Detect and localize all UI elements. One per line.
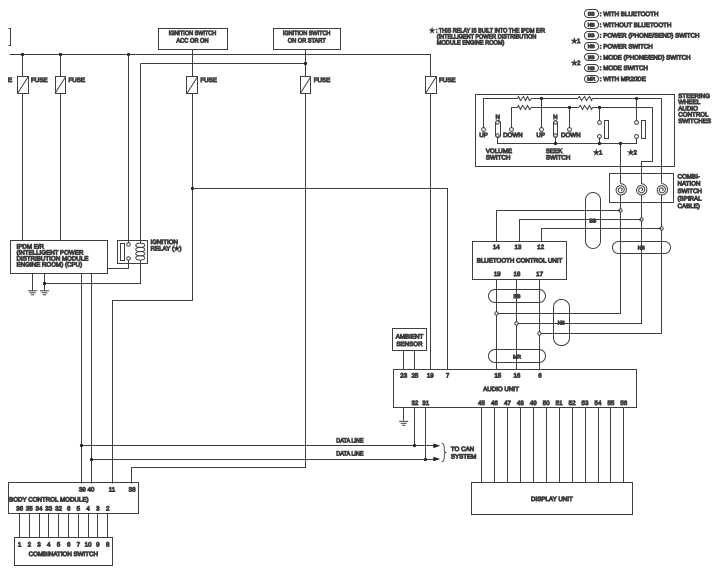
legend row BB MODE (PHONE/END) SWITCH bbox=[585, 54, 691, 62]
node: bus junction to fuse E bbox=[21, 53, 24, 56]
combination switch pin 3 bbox=[37, 541, 41, 548]
audio pin 45 bbox=[478, 400, 485, 407]
switch star1 bbox=[594, 108, 609, 157]
wire: spiral2 down, to audio16 line bbox=[517, 196, 642, 324]
fuse F2 bbox=[55, 77, 85, 94]
fuse F1 (E) bbox=[8, 77, 48, 94]
wire: fuse F1 to IPDM E/R bbox=[22, 94, 24, 241]
legend row NB POWER SWITCH bbox=[585, 43, 653, 51]
combination switch pin 8 bbox=[106, 541, 110, 548]
svg-text:E: E bbox=[8, 77, 12, 84]
wire: BCM 33 to combination switch bbox=[48, 514, 50, 538]
wire: spiral3 down, to audio6 line bbox=[540, 196, 662, 334]
legend row MR WITH MR20DE bbox=[585, 76, 646, 84]
audio pin 7 bbox=[446, 373, 450, 380]
combination switch pin 10 bbox=[85, 541, 92, 548]
wire: spiral3 to bluetooth pin 12 bbox=[542, 229, 662, 242]
wire: ACC switch lead to fuse 3 bbox=[192, 50, 194, 77]
brace: to CAN system bbox=[442, 443, 447, 461]
fuse F5 bbox=[426, 77, 456, 94]
wire: audio 52 to display unit bbox=[572, 408, 574, 483]
node: ON/START lead junction bbox=[304, 62, 307, 65]
wire: common output to spiral cable bbox=[620, 144, 622, 184]
wire: BCM 2 to combination switch bbox=[107, 514, 109, 538]
svg-text:DOWN: DOWN bbox=[503, 132, 523, 139]
audio pin 49 bbox=[530, 400, 537, 407]
svg-text:RELAY (★): RELAY (★) bbox=[151, 245, 182, 252]
wire: audio 47 to display unit bbox=[507, 408, 509, 483]
node: spiral3 option junction bbox=[660, 227, 663, 230]
wire: data line 1 bbox=[82, 445, 434, 447]
svg-text:32: 32 bbox=[411, 400, 418, 407]
arrow: data line 2 to CAN bbox=[433, 457, 440, 462]
node: spiral2 option junction bbox=[640, 218, 643, 221]
svg-text:DATA LINE: DATA LINE bbox=[336, 451, 363, 458]
BCM pin 6 bbox=[67, 506, 71, 513]
combination switch pin 4 bbox=[47, 541, 51, 548]
IPDM E/R box bbox=[11, 241, 108, 274]
BCM pin 3 bbox=[96, 506, 100, 513]
seek switch N contact bbox=[553, 114, 557, 144]
svg-text:COMBI-: COMBI- bbox=[678, 173, 700, 180]
wire: bluetooth 18 to audio 16 bbox=[516, 280, 518, 370]
wire: data line 2 bbox=[92, 459, 434, 461]
node: common output junction bbox=[619, 142, 622, 145]
svg-text:4: 4 bbox=[47, 541, 51, 548]
page continuation bracket top-left bbox=[9, 29, 11, 46]
BCM pin 34 bbox=[36, 506, 43, 513]
svg-text:: MODE (PHONE/END) SWITCH: : MODE (PHONE/END) SWITCH bbox=[600, 54, 691, 61]
svg-text:NB: NB bbox=[588, 22, 596, 28]
node: audio16 option junction bbox=[515, 322, 518, 325]
svg-text:39: 39 bbox=[79, 486, 86, 493]
svg-text:7: 7 bbox=[446, 373, 450, 380]
svg-text:★2: ★2 bbox=[572, 60, 582, 67]
combination switch pin 7 bbox=[77, 541, 81, 548]
wire: audio 50 to display unit bbox=[546, 408, 548, 483]
legend marker *1 bbox=[572, 38, 582, 45]
svg-text:23: 23 bbox=[400, 373, 407, 380]
svg-text:NB: NB bbox=[558, 321, 566, 327]
node: audio6 option junction bbox=[538, 332, 541, 335]
svg-text:MR: MR bbox=[587, 77, 595, 83]
label: to CAN system bbox=[451, 446, 476, 461]
BCM pin 36 bbox=[16, 506, 23, 513]
svg-text:AUDIO UNIT: AUDIO UNIT bbox=[483, 386, 519, 393]
svg-text:2: 2 bbox=[106, 506, 110, 513]
audio pin 46 bbox=[491, 400, 498, 407]
svg-text:DISPLAY UNIT: DISPLAY UNIT bbox=[531, 496, 573, 503]
svg-text:MODULE ENGINE ROOM): MODULE ENGINE ROOM) bbox=[437, 40, 505, 47]
audio pin 51 bbox=[556, 400, 563, 407]
svg-text:: WITH BLUETOOTH: : WITH BLUETOOTH bbox=[600, 11, 659, 18]
svg-text:SWITCHES: SWITCHES bbox=[678, 118, 711, 125]
svg-text:DATA LINE: DATA LINE bbox=[336, 437, 363, 444]
volume switch UP contact bbox=[479, 128, 488, 139]
svg-text:NB: NB bbox=[638, 246, 646, 252]
wire: branch to audio unit pin 7 bbox=[193, 189, 448, 370]
svg-text:ACC OR ON: ACC OR ON bbox=[176, 37, 208, 44]
svg-text:53: 53 bbox=[582, 400, 589, 407]
node: audio15 option junction bbox=[495, 312, 498, 315]
svg-text:6: 6 bbox=[67, 541, 71, 548]
node: fuse F3 branch junction bbox=[191, 187, 194, 190]
svg-text:: POWER SWITCH: : POWER SWITCH bbox=[600, 44, 653, 51]
BCM pin 32 bbox=[55, 506, 62, 513]
wire: fuse F5 to audio unit pin 19 bbox=[430, 94, 432, 370]
connector NB (horizontal, without bluetooth) bbox=[613, 242, 671, 254]
svg-text:TO CAN: TO CAN bbox=[451, 446, 474, 453]
svg-text:6: 6 bbox=[67, 506, 71, 513]
svg-text:SWITCH: SWITCH bbox=[546, 154, 570, 161]
volume switch N contact bbox=[495, 114, 500, 138]
fuse F3 bbox=[187, 77, 217, 94]
svg-text:BB: BB bbox=[588, 33, 595, 39]
spiral cable coil 1 bbox=[616, 184, 626, 195]
wire: audio 31 to data line 2 bbox=[425, 408, 427, 460]
node: star1 common junction bbox=[598, 142, 601, 145]
svg-text:35: 35 bbox=[26, 506, 33, 513]
wire: BCM 32 to combination switch bbox=[58, 514, 60, 538]
body control module box bbox=[9, 483, 139, 514]
connector MR (with MR20DE) bbox=[489, 350, 546, 363]
ground: IPDM 1 bbox=[28, 274, 37, 295]
wire: spiral1 down, to audio15 line bbox=[497, 196, 621, 314]
wire: ambient sensor to audio 25 bbox=[414, 351, 416, 370]
svg-text:: WITHOUT BLUETOOTH: : WITHOUT BLUETOOTH bbox=[600, 22, 672, 29]
audio pin 16 bbox=[513, 373, 520, 380]
connector NB (vertical) bbox=[554, 300, 570, 346]
wire: spiral1 to bluetooth pin 14 bbox=[497, 211, 621, 242]
node: seek up tap bbox=[540, 97, 543, 100]
wire: ON/START branch bus bbox=[141, 63, 306, 65]
svg-text:25: 25 bbox=[411, 373, 418, 380]
svg-text:54: 54 bbox=[595, 400, 602, 407]
BCM pin 4 bbox=[86, 506, 90, 513]
ground: audio unit bbox=[399, 408, 408, 426]
wire: fuse F3 down bbox=[113, 94, 193, 484]
svg-text:1: 1 bbox=[18, 541, 22, 548]
svg-text:52: 52 bbox=[569, 400, 576, 407]
svg-text:7: 7 bbox=[77, 541, 81, 548]
BCM pin 38 bbox=[129, 486, 136, 493]
node: star2 tap bbox=[635, 97, 638, 100]
svg-text:11: 11 bbox=[109, 486, 116, 493]
connector BB (horizontal) bbox=[489, 290, 546, 303]
audio pin 53 bbox=[582, 400, 589, 407]
svg-text:★1: ★1 bbox=[572, 38, 582, 45]
wire: BCM 3 to combination switch bbox=[97, 514, 99, 538]
combination switch pin 1 bbox=[18, 541, 22, 548]
node: star1 tap bbox=[598, 106, 601, 109]
ground: IPDM 2 bbox=[40, 274, 49, 295]
svg-text:FUSE: FUSE bbox=[200, 77, 217, 84]
node: spiral1 option junction bbox=[619, 209, 622, 212]
svg-text:NB: NB bbox=[588, 44, 596, 50]
svg-text:ON OR START: ON OR START bbox=[288, 37, 326, 44]
audio pin 56 bbox=[620, 400, 627, 407]
wire: BCM 5 to combination switch bbox=[78, 514, 80, 538]
wire: branch bus to relay coil bbox=[140, 64, 142, 244]
wire: audio 51 to display unit bbox=[559, 408, 561, 483]
svg-text:NATION: NATION bbox=[678, 181, 701, 188]
svg-text:FUSE: FUSE bbox=[314, 77, 331, 84]
pin 19 bbox=[494, 271, 501, 278]
seek switch UP contact bbox=[536, 99, 545, 139]
svg-text:BB: BB bbox=[588, 12, 595, 18]
ignition relay bbox=[118, 241, 148, 264]
combination switch box bbox=[15, 538, 113, 566]
audio pin 15 bbox=[494, 373, 501, 380]
legend marker *2 bbox=[572, 60, 582, 67]
wire: bus to relay contact bbox=[128, 55, 130, 243]
legend row NB WITHOUT BLUETOOTH bbox=[585, 21, 672, 29]
legend row BB POWER (PHONE/SEND) SWITCH bbox=[585, 32, 700, 40]
svg-text:3: 3 bbox=[37, 541, 41, 548]
svg-text:47: 47 bbox=[504, 400, 511, 407]
svg-text:45: 45 bbox=[478, 400, 485, 407]
wire: fuse F2 to IPDM E/R bbox=[60, 94, 62, 241]
wire: relay output to IPDM bbox=[108, 261, 129, 269]
node: data line 2 to audio 31 bbox=[424, 458, 427, 461]
wire: audio 46 to display unit bbox=[494, 408, 496, 483]
pin 12 bbox=[537, 244, 544, 251]
svg-text:MR: MR bbox=[513, 354, 521, 360]
svg-text:2: 2 bbox=[28, 541, 32, 548]
wire: spiral2 to bluetooth pin 13 bbox=[520, 220, 642, 242]
svg-text:19: 19 bbox=[427, 373, 434, 380]
wire: audio 55 to display unit bbox=[610, 408, 612, 483]
svg-text:13: 13 bbox=[514, 244, 521, 251]
audio pin 55 bbox=[607, 400, 614, 407]
wire: bluetooth 17 to audio 6 bbox=[539, 280, 541, 370]
svg-text:BB: BB bbox=[588, 55, 595, 61]
BCM pin 33 bbox=[45, 506, 52, 513]
svg-text:5: 5 bbox=[77, 506, 81, 513]
wire: ambient sensor to audio 23 bbox=[403, 351, 405, 370]
svg-text:17: 17 bbox=[536, 271, 543, 278]
svg-text:18: 18 bbox=[513, 271, 520, 278]
svg-text:55: 55 bbox=[607, 400, 614, 407]
audio pin 19 bbox=[427, 373, 434, 380]
svg-text:★2: ★2 bbox=[628, 150, 638, 157]
svg-text:34: 34 bbox=[36, 506, 43, 513]
svg-text:32: 32 bbox=[55, 506, 62, 513]
ignition switch ACC OR ON box bbox=[159, 29, 228, 50]
fuse F4 bbox=[300, 77, 330, 94]
wire: audio 45 to display unit bbox=[481, 408, 483, 483]
svg-text:N: N bbox=[553, 114, 557, 121]
wire: volume N to common bus bbox=[498, 137, 637, 144]
bluetooth control unit box bbox=[473, 242, 567, 280]
audio pin 52 bbox=[569, 400, 576, 407]
BCM pin 39 bbox=[79, 486, 86, 493]
node: data line 2 from BCM 40 bbox=[90, 458, 93, 461]
audio pin 50 bbox=[543, 400, 550, 407]
label: ignition relay bbox=[151, 239, 182, 252]
BCM pin 40 bbox=[87, 486, 94, 493]
svg-text:46: 46 bbox=[491, 400, 498, 407]
svg-text:10: 10 bbox=[85, 541, 92, 548]
node: seek N common junction bbox=[554, 142, 557, 145]
label: steering wheel audio control switches bbox=[678, 93, 711, 125]
svg-text:UP: UP bbox=[479, 132, 488, 139]
svg-text:: WITH MR20DE: : WITH MR20DE bbox=[600, 76, 646, 83]
svg-text:SENSOR: SENSOR bbox=[396, 341, 423, 348]
label: volume switch bbox=[486, 148, 512, 161]
wire: audio 32 to data line 1 bbox=[414, 408, 416, 446]
svg-text:19: 19 bbox=[494, 271, 501, 278]
wire: relay coil return to ground bbox=[45, 261, 141, 284]
svg-text:★1: ★1 bbox=[594, 150, 604, 157]
wire: BCM 34 to combination switch bbox=[39, 514, 41, 538]
BCM pin 11 bbox=[109, 486, 116, 493]
wire: audio 53 to display unit bbox=[585, 408, 587, 483]
pin 13 bbox=[514, 244, 521, 251]
audio pin 54 bbox=[595, 400, 602, 407]
svg-text:6: 6 bbox=[538, 373, 542, 380]
node: bus junction to fuse 2 bbox=[59, 53, 62, 56]
svg-text:38: 38 bbox=[129, 486, 136, 493]
svg-text:COMBINATION SWITCH: COMBINATION SWITCH bbox=[29, 551, 98, 558]
svg-text:BODY CONTROL MODULE): BODY CONTROL MODULE) bbox=[9, 497, 88, 504]
svg-text:SYSTEM: SYSTEM bbox=[451, 453, 476, 460]
svg-text:50: 50 bbox=[543, 400, 550, 407]
label: seek switch bbox=[546, 148, 570, 161]
BCM pin 2 bbox=[106, 506, 110, 513]
steering wheel audio control switches box bbox=[476, 95, 675, 167]
combination switch pin 9 bbox=[96, 541, 100, 548]
svg-text:N: N bbox=[495, 114, 499, 121]
audio unit box bbox=[394, 370, 637, 408]
ignition switch ON OR START box bbox=[274, 29, 341, 50]
svg-text:5: 5 bbox=[57, 541, 61, 548]
svg-text:NB: NB bbox=[588, 66, 596, 72]
wire: audio 56 to display unit bbox=[623, 408, 625, 483]
svg-text:SWITCH: SWITCH bbox=[678, 188, 702, 195]
switch star2 bbox=[628, 99, 646, 157]
audio pin 25 bbox=[411, 373, 418, 380]
svg-text:ENGINE ROOM) (CPU): ENGINE ROOM) (CPU) bbox=[17, 262, 83, 269]
svg-text:UP: UP bbox=[536, 132, 545, 139]
wire: audio 54 to display unit bbox=[598, 408, 600, 483]
svg-text:31: 31 bbox=[422, 400, 429, 407]
pin 18 bbox=[513, 271, 520, 278]
svg-text:SWITCH: SWITCH bbox=[486, 154, 510, 161]
wire: bus to fuse F2 bbox=[60, 55, 62, 77]
combination switch pin 5 bbox=[57, 541, 61, 548]
audio pin 6 bbox=[538, 373, 542, 380]
svg-text:56: 56 bbox=[620, 400, 627, 407]
svg-text:BLUETOOTH CONTROL UNIT: BLUETOOTH CONTROL UNIT bbox=[477, 257, 563, 264]
node: seek down tap bbox=[568, 106, 571, 109]
wire: ON/START switch lead bbox=[305, 50, 307, 77]
wire: switch bus 2 with resistors bbox=[512, 106, 653, 184]
wire: fuse F4 to body control module pin 38 bbox=[132, 94, 306, 484]
svg-text:9: 9 bbox=[96, 541, 100, 548]
svg-text:33: 33 bbox=[45, 506, 52, 513]
seek switch DOWN contact bbox=[561, 108, 581, 139]
svg-text:FUSE: FUSE bbox=[31, 77, 48, 84]
connector BB (vertical, with bluetooth) bbox=[586, 193, 601, 249]
svg-text:14: 14 bbox=[493, 244, 500, 251]
spiral cable coil 3 bbox=[657, 184, 667, 195]
combination switch (spiral cable) box bbox=[610, 174, 674, 203]
svg-text:48: 48 bbox=[517, 400, 524, 407]
wire: main power bus bbox=[10, 55, 431, 77]
legend row NB MODE SWITCH bbox=[585, 65, 648, 73]
svg-text:40: 40 bbox=[87, 486, 94, 493]
wire: bus to fuse F1 bbox=[22, 55, 24, 77]
node: ground junction bbox=[43, 282, 46, 285]
svg-text:3: 3 bbox=[96, 506, 100, 513]
svg-text:: POWER (PHONE/SEND) SWITCH: : POWER (PHONE/SEND) SWITCH bbox=[600, 33, 700, 40]
svg-text:12: 12 bbox=[537, 244, 544, 251]
svg-text:4: 4 bbox=[86, 506, 90, 513]
wire: IPDM to BCM pin 40 bbox=[91, 274, 93, 484]
display unit box bbox=[472, 483, 633, 515]
svg-text:AMBIENT: AMBIENT bbox=[396, 333, 424, 340]
wire: BCM 6 to combination switch bbox=[68, 514, 70, 538]
wire: BCM 35 to combination switch bbox=[29, 514, 31, 538]
wire: audio 48 to display unit bbox=[520, 408, 522, 483]
label: data line 1 bbox=[336, 437, 363, 444]
wire: IPDM to BCM pin 39 bbox=[81, 274, 83, 484]
audio pin 48 bbox=[517, 400, 524, 407]
wire: bluetooth 19 to audio 15 bbox=[496, 280, 498, 370]
svg-text:51: 51 bbox=[556, 400, 563, 407]
svg-text:IGNITION SWITCH: IGNITION SWITCH bbox=[283, 30, 331, 37]
legend row BB WITH BLUETOOTH bbox=[585, 10, 659, 18]
label: data line 2 bbox=[336, 451, 363, 458]
node: bus junction to ignition relay contact bbox=[127, 53, 130, 56]
svg-text:15: 15 bbox=[494, 373, 501, 380]
wire: BCM 36 to combination switch bbox=[19, 514, 21, 538]
label: combination switch spiral cable bbox=[678, 173, 703, 210]
svg-text:FUSE: FUSE bbox=[439, 77, 456, 84]
wire: switch bus 1 with resistors bbox=[484, 97, 662, 184]
BCM pin 5 bbox=[77, 506, 81, 513]
node: data line 1 to audio 32 bbox=[413, 444, 416, 447]
audio pin 23 bbox=[400, 373, 407, 380]
svg-text:(SPIRAL: (SPIRAL bbox=[678, 196, 703, 203]
combination switch pin 6 bbox=[67, 541, 71, 548]
svg-text:49: 49 bbox=[530, 400, 537, 407]
wire: audio 49 to display unit bbox=[533, 408, 535, 483]
note: relay built into IPDM bbox=[430, 27, 546, 46]
svg-text:BB: BB bbox=[589, 218, 596, 224]
svg-text:16: 16 bbox=[513, 373, 520, 380]
audio pin 32 bbox=[411, 400, 418, 407]
svg-text:CABLE): CABLE) bbox=[678, 203, 700, 210]
svg-text:FUSE: FUSE bbox=[69, 77, 86, 84]
audio pin 31 bbox=[422, 400, 429, 407]
svg-text:: MODE SWITCH: : MODE SWITCH bbox=[600, 65, 648, 72]
pin 14 bbox=[493, 244, 500, 251]
volume switch DOWN contact bbox=[503, 128, 523, 139]
audio pin 47 bbox=[504, 400, 511, 407]
svg-text:DOWN: DOWN bbox=[561, 132, 581, 139]
pin 17 bbox=[536, 271, 543, 278]
BCM pin 35 bbox=[26, 506, 33, 513]
svg-text:BB: BB bbox=[514, 294, 521, 300]
spiral cable coil 2 bbox=[637, 184, 647, 195]
node: data line 1 from BCM 39 bbox=[80, 444, 83, 447]
svg-text:8: 8 bbox=[106, 541, 110, 548]
svg-text:36: 36 bbox=[16, 506, 23, 513]
svg-text:IGNITION SWITCH: IGNITION SWITCH bbox=[169, 30, 217, 37]
arrow: data line 1 to CAN bbox=[433, 444, 440, 449]
